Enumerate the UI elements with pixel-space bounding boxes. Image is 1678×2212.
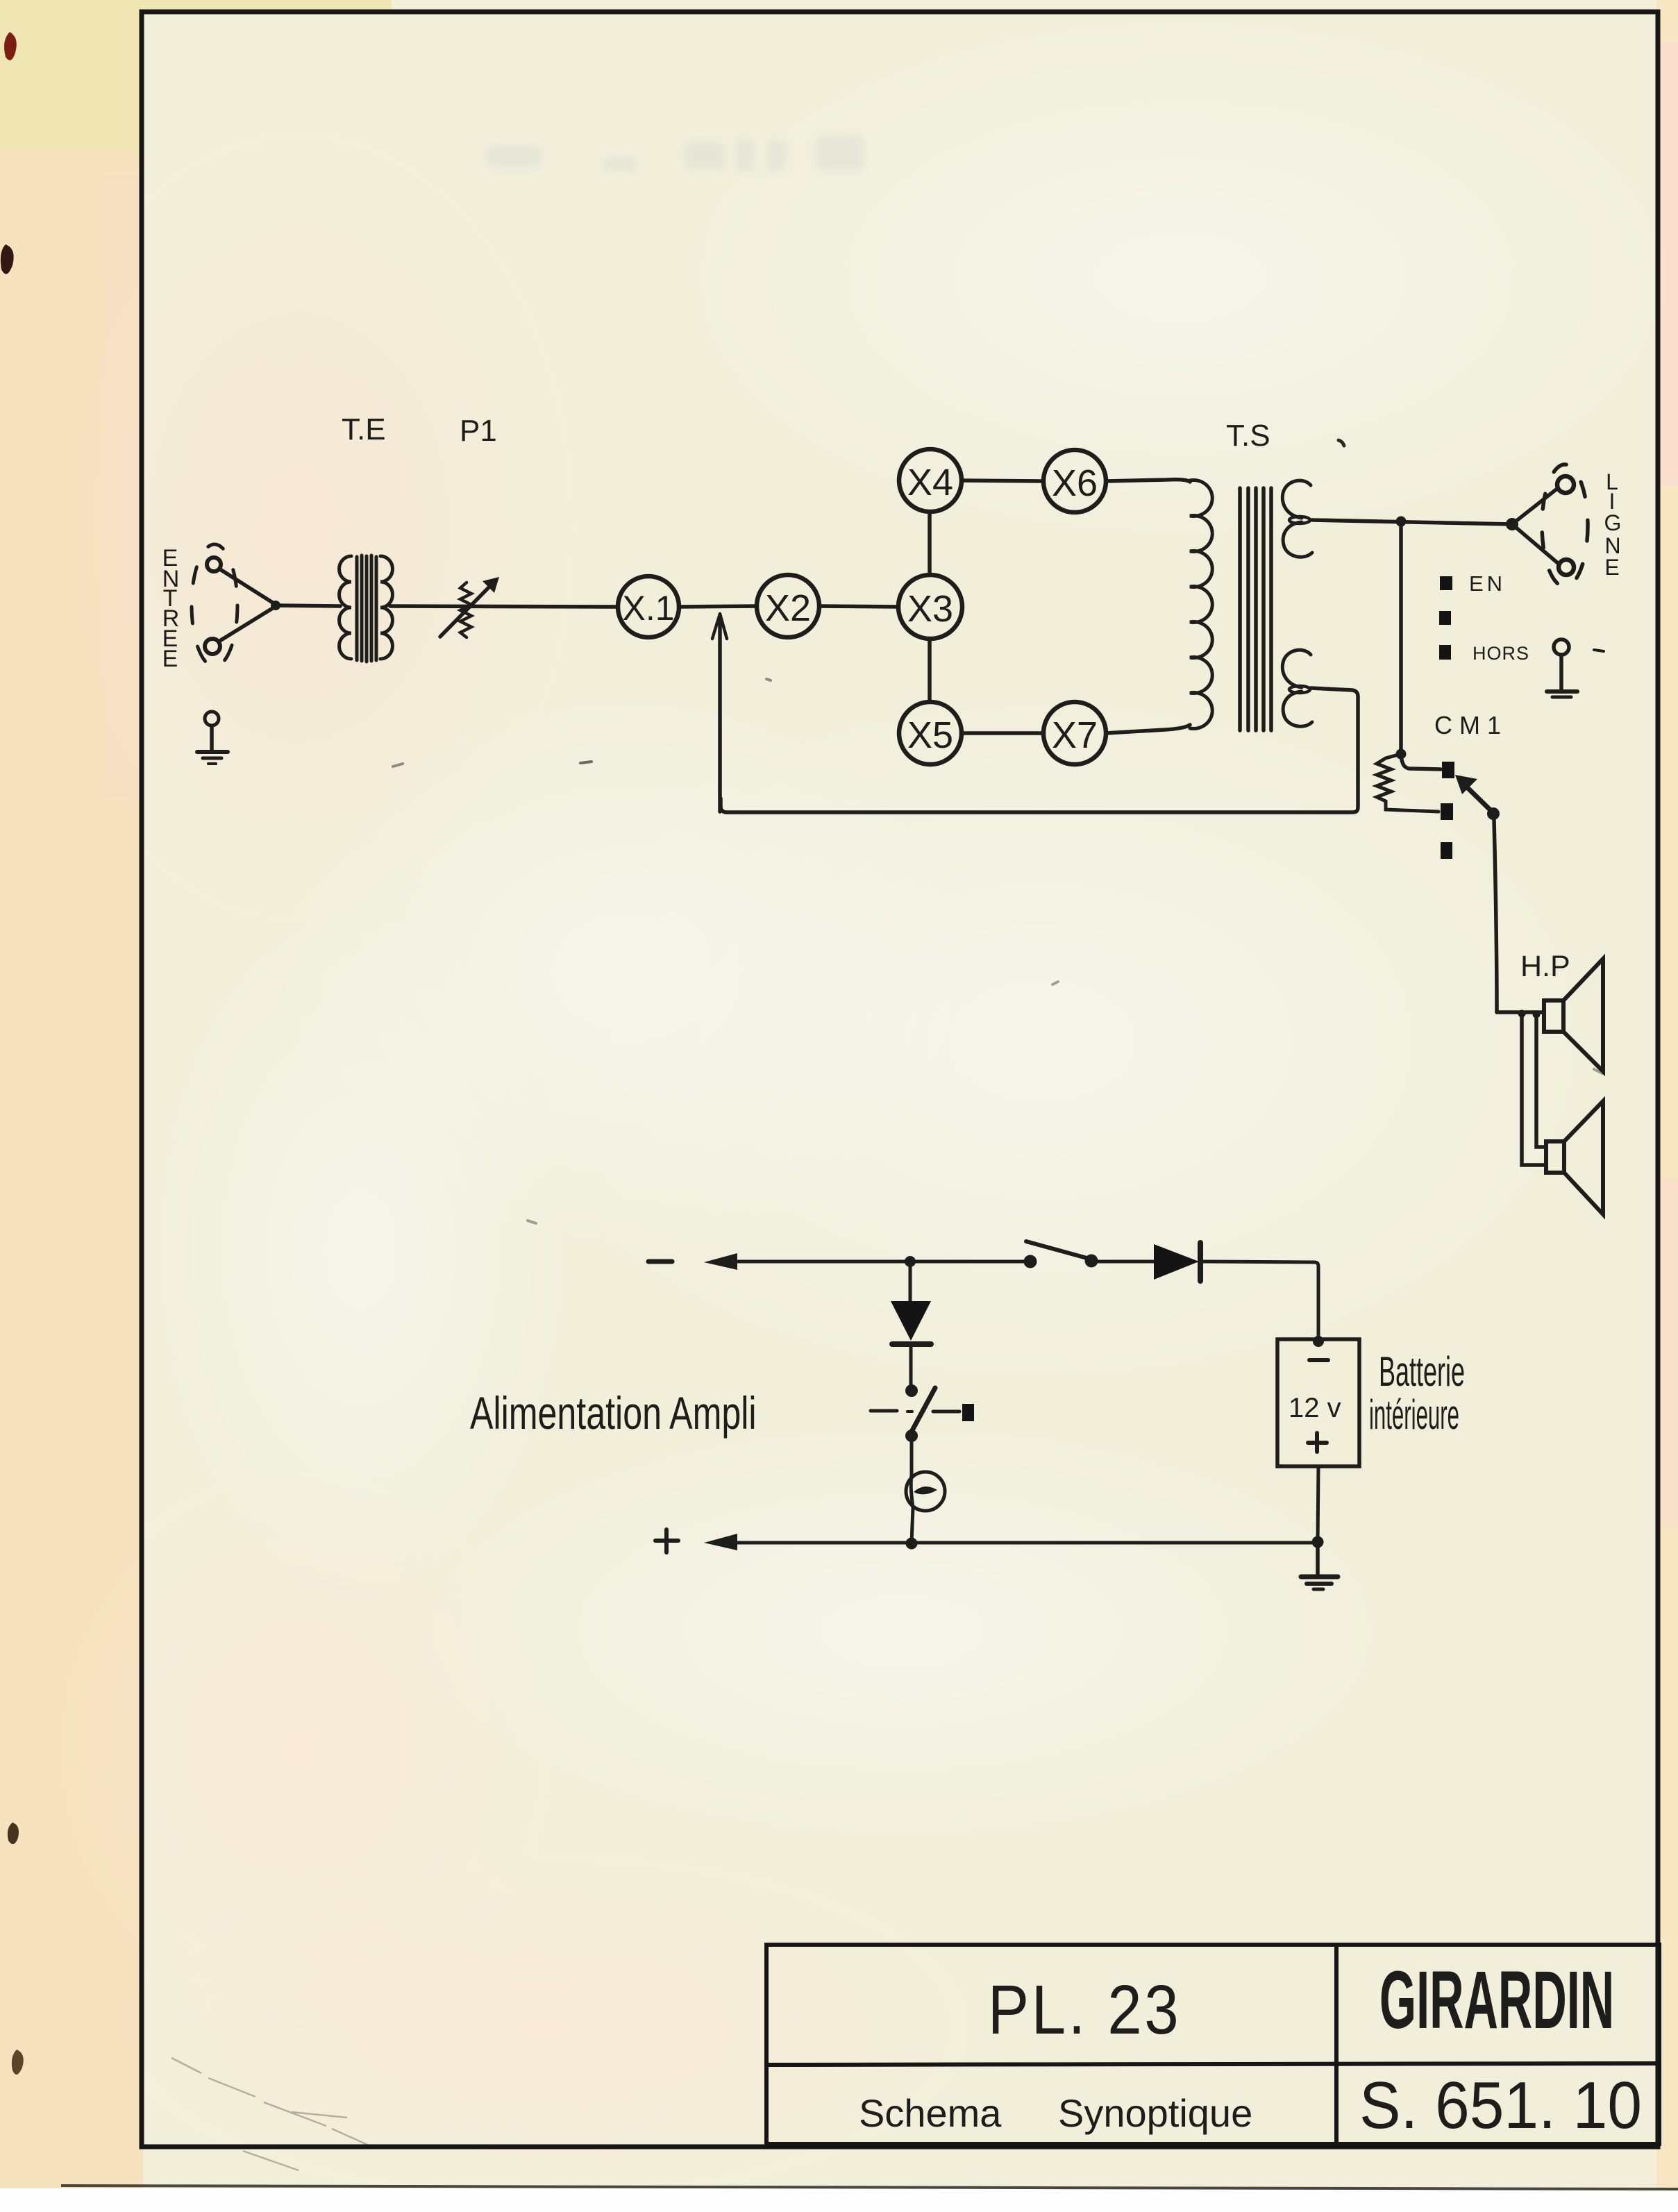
svg-text:12 v: 12 v (1289, 1393, 1341, 1423)
svg-text:S. 651. 10: S. 651. 10 (1359, 2068, 1642, 2143)
faint ghost bleed-through text (486, 135, 864, 172)
wire X7 to T.S primary bottom (1106, 725, 1190, 733)
label Batterie interieure (1369, 1349, 1465, 1439)
svg-text:E: E (162, 646, 178, 672)
wire T.E to X1 (through P1) (390, 606, 618, 607)
amplifier block X1 (618, 576, 679, 637)
node: LIGNE fork junction (1506, 518, 1518, 530)
feedback arrow into X2 input (712, 614, 727, 812)
pencil scratches bottom-left (decorative) (171, 2058, 375, 2170)
wire LIGNE junction down to CM1 (1399, 524, 1403, 754)
ground terminal (line) (1547, 639, 1604, 697)
svg-text:E: E (1604, 555, 1619, 580)
label Alimentation Ampli (470, 1388, 757, 1439)
svg-text:EN: EN (1469, 571, 1506, 596)
svg-text:C M 1: C M 1 (1434, 711, 1501, 739)
node: CM1 top junction (1396, 749, 1407, 760)
switch S2 (battery charge) (1024, 1241, 1098, 1268)
svg-text:Schema: Schema (859, 2091, 1002, 2135)
node: positive rail / lamp branch (906, 1538, 918, 1550)
indicator lamp (906, 1472, 945, 1511)
title text S. 651. 10 (1359, 2068, 1642, 2143)
node: input junction (271, 601, 280, 610)
connector LIGNE (output terminals) (1512, 464, 1588, 587)
potentiometer P1 (440, 414, 499, 637)
svg-text:X3: X3 (907, 588, 953, 630)
switch CM1 lever (1455, 775, 1500, 820)
svg-text:Synoptique: Synoptique (1058, 2091, 1252, 2135)
transformer T.S (1190, 419, 1312, 730)
node: CM1 branch junction (1396, 517, 1407, 527)
svg-text:P1: P1 (460, 414, 497, 448)
node: battery + terminal top (1313, 1336, 1324, 1347)
wire X3 to X4 (928, 512, 932, 575)
svg-text:HORS: HORS (1473, 643, 1529, 664)
title text GIRARDIN (1379, 1955, 1614, 2046)
amplifier block X3 (898, 575, 962, 639)
svg-text:X7: X7 (1052, 714, 1098, 756)
diode D1 (shunt, cathode down) (891, 1301, 931, 1389)
left page-edge specks (1, 32, 24, 2075)
ground (input) (197, 712, 228, 764)
loudspeaker upper (1497, 959, 1603, 1071)
svg-text:Alimentation Ampli: Alimentation Ampli (470, 1388, 757, 1439)
wire X6 to T.S primary top (1106, 480, 1190, 482)
loudspeaker lower (1546, 1101, 1603, 1214)
svg-text:X6: X6 (1052, 462, 1098, 504)
label LIGNE (1604, 469, 1622, 580)
svg-text:T.S: T.S (1226, 419, 1270, 453)
svg-text:H.P: H.P (1520, 950, 1570, 983)
feedback wire T.S secondary bottom to X2 input (721, 688, 1358, 812)
wire D1 branch (909, 1262, 912, 1301)
switch EN/HORS position indicator (1439, 571, 1529, 664)
svg-text:X4: X4 (907, 462, 953, 503)
node: battery bottom junction (1312, 1536, 1324, 1548)
amplifier block X6 (1043, 450, 1106, 512)
stray marks (decorative) (393, 440, 1602, 1223)
wire CM1 junction to contact EN (1401, 757, 1441, 769)
negative rail with arrow (648, 1253, 1030, 1270)
amplifier block X4 (899, 449, 962, 512)
wire battery to positive rail (1318, 1466, 1318, 1543)
ground (battery) (1301, 1543, 1338, 1589)
resistor (CM1 attenuator) (1377, 754, 1438, 812)
svg-text:T.E: T.E (342, 412, 386, 446)
svg-text:PL. 23: PL. 23 (988, 1971, 1182, 2049)
svg-text:GIRARDIN: GIRARDIN (1379, 1955, 1614, 2046)
svg-text:Batterie: Batterie (1379, 1349, 1465, 1396)
amplifier block X5 (899, 702, 962, 764)
wire D2 to battery (1203, 1262, 1318, 1341)
title text PL. 23 (988, 1971, 1182, 2049)
wire input junction to T.E (276, 605, 340, 606)
label ENTREE (162, 545, 180, 672)
svg-text:X.1: X.1 (622, 589, 674, 628)
wire X3 to X5 (928, 639, 932, 702)
wire X4 to X6 (962, 480, 1043, 481)
wire X5 to X7 (962, 731, 1043, 735)
wire S2 to diode D2 (1091, 1260, 1154, 1264)
transformer T.E (339, 412, 393, 662)
title block (766, 1945, 1659, 2144)
svg-text:X2: X2 (765, 587, 811, 629)
wire CM1 lever to H.P (1494, 820, 1497, 1012)
battery 12 V (Batterie interieure) (1277, 1339, 1359, 1466)
amplifier block X2 (757, 575, 819, 637)
svg-text:intérieure: intérieure (1369, 1392, 1459, 1438)
wire to lower loudspeaker (1522, 1014, 1546, 1165)
wire X2 to X3 (819, 606, 898, 607)
svg-text:X5: X5 (907, 714, 953, 756)
wire T.S secondary top to LIGNE fork (1312, 520, 1512, 524)
connector ENTREE (input terminals) (192, 544, 275, 667)
svg-text:G: G (1604, 510, 1622, 535)
amplifier block X7 (1043, 702, 1106, 764)
switch S1 (push-button) (871, 1384, 974, 1442)
diode D2 (1154, 1243, 1200, 1281)
wire S1 to lamp (910, 1442, 914, 1475)
positive rail with arrow (655, 1530, 1318, 1552)
wire lamp to positive rail (912, 1508, 913, 1543)
switch CM1 contacts (1441, 762, 1454, 859)
node: negative rail / D1 branch (905, 1256, 916, 1267)
wire X1 to X2 (679, 606, 757, 607)
